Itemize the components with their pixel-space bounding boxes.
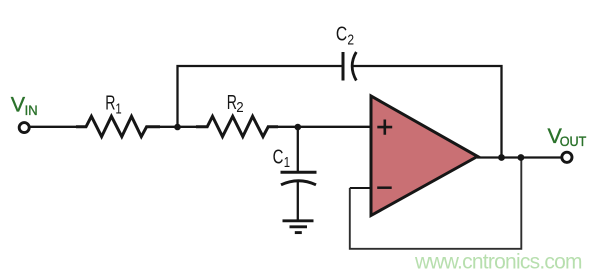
resistor R2 <box>196 116 278 136</box>
label C1 <box>273 146 290 172</box>
wire VIN to R1 <box>30 126 78 128</box>
svg-text:1: 1 <box>284 154 290 171</box>
svg-text:R: R <box>105 91 115 114</box>
wire C2 to output node <box>352 66 501 157</box>
svg-text:www.cntronics.com: www.cntronics.com <box>414 250 582 273</box>
wire C1 to ground <box>297 181 299 220</box>
wire feedback loop <box>350 158 522 249</box>
capacitor C2 <box>343 52 356 81</box>
label R2 <box>227 91 244 116</box>
terminal VIN <box>19 123 29 133</box>
node D junction output/feedback <box>518 154 525 161</box>
label C2 <box>336 22 354 48</box>
resistor R1 <box>76 116 160 136</box>
wire node A up to C2 feedback <box>178 66 344 128</box>
label R1 <box>105 91 121 117</box>
svg-text:C: C <box>336 22 347 45</box>
svg-text:V: V <box>11 93 26 117</box>
capacitor C1 <box>281 172 317 185</box>
svg-text:2: 2 <box>236 99 243 116</box>
label VIN <box>11 93 38 118</box>
op-amp U1 <box>371 96 478 216</box>
svg-text:C: C <box>273 146 284 169</box>
node B junction R2/C1 <box>295 124 302 131</box>
ground <box>283 221 314 233</box>
wire R1 to R2 <box>158 126 208 128</box>
terminal VOUT <box>562 152 572 162</box>
op-amp minus marking <box>377 186 392 189</box>
label VOUT <box>548 124 587 149</box>
svg-text:OUT: OUT <box>560 134 587 149</box>
wire node B down to C1 <box>297 128 299 172</box>
op-amp plus marking <box>377 120 392 135</box>
wire R2 to op-amp noninverting input <box>267 126 372 128</box>
wire inverting input <box>350 187 372 189</box>
wire op-amp output to VOUT <box>477 156 562 158</box>
svg-text:2: 2 <box>347 32 354 49</box>
node A junction R1/R2/C2 <box>174 124 181 131</box>
svg-text:1: 1 <box>115 100 121 117</box>
svg-text:IN: IN <box>25 103 38 118</box>
node C junction output/C2 <box>498 154 505 161</box>
